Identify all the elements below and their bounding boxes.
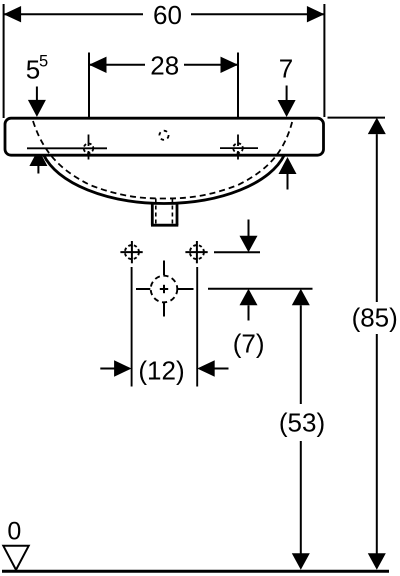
svg-text:(85): (85)	[352, 303, 398, 333]
dimension 60 line	[4, 13, 325, 15]
label 5 superscript 5	[26, 53, 48, 85]
dimension 28 arrow right	[221, 57, 239, 73]
drain level line	[208, 288, 313, 290]
svg-text:(53): (53)	[279, 408, 325, 438]
dimension (85) arrow down	[368, 334, 386, 570]
dimension 60 extension line right	[323, 4, 325, 117]
dimension 28 arrow left	[89, 57, 107, 73]
drain outlet inner dashed lines	[156, 199, 173, 225]
washbasin rim outline	[5, 118, 324, 155]
svg-text:0: 0	[7, 518, 21, 546]
svg-text:60: 60	[153, 0, 182, 30]
dimension 5.5 arrow down	[28, 87, 46, 117]
tap hole right dashed circle	[233, 143, 243, 153]
bowl inner outline dashed	[33, 119, 293, 199]
drain outlet	[151, 203, 178, 226]
dimension 7 arrow down	[278, 86, 296, 118]
supply extension line left	[131, 267, 133, 387]
dimension 60 arrow right	[307, 6, 325, 22]
dimension (53) arrow down	[292, 441, 310, 570]
tap hole left dashed circle	[84, 144, 94, 154]
bowl outer outline	[44, 155, 285, 203]
water supply left symbol	[120, 241, 142, 263]
dimension (7) arrow down	[240, 220, 258, 253]
datum level triangle	[3, 546, 28, 570]
rim level extension line right	[328, 117, 386, 119]
floor line	[2, 570, 389, 573]
tap hole deck line left	[27, 147, 107, 149]
dimension 28 extension line right	[237, 53, 239, 131]
supply extension line right	[196, 267, 198, 387]
dimension 12 arrow right	[197, 360, 228, 376]
tap hole deck line right	[220, 147, 258, 149]
overflow hole dashed circle	[159, 131, 168, 140]
svg-text:(12): (12)	[138, 356, 184, 386]
svg-text:7: 7	[279, 53, 293, 83]
dimension 12 arrow left	[100, 360, 131, 376]
dimension 5.5 arrow up	[29, 149, 47, 174]
dimension 28 line	[89, 64, 238, 66]
dimension 28 extension line left	[88, 53, 90, 131]
svg-text:(7): (7)	[233, 329, 265, 359]
svg-text:28: 28	[150, 51, 179, 81]
tap hole left centreline vertical	[88, 135, 90, 160]
svg-text:5: 5	[39, 53, 48, 71]
dimension 60 arrow left	[4, 6, 22, 22]
dimension (53) arrow up	[292, 289, 310, 404]
dimension 60 extension line left	[3, 4, 5, 118]
tap hole right centreline vertical	[237, 135, 239, 160]
water supply right symbol	[185, 241, 207, 263]
drain connection symbol	[136, 261, 194, 317]
dimension 7 arrow up	[279, 157, 297, 190]
supply level line	[214, 251, 260, 253]
dimension (7) arrow up	[240, 289, 258, 321]
dimension (85) arrow up	[368, 118, 386, 302]
